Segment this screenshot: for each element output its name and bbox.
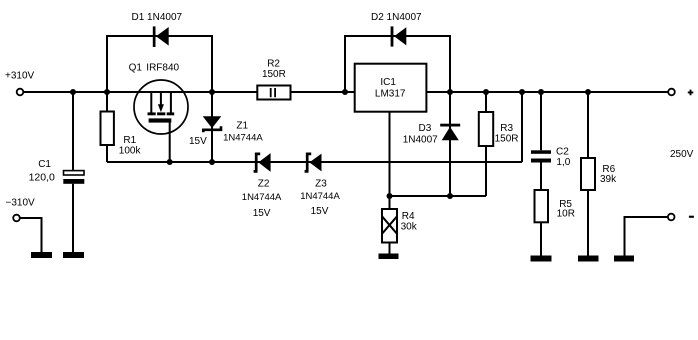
junction dot adj node left — [387, 193, 393, 199]
zener Z1 — [203, 116, 222, 132]
zener Z3 — [305, 154, 322, 172]
junction R6 on rail — [585, 89, 591, 95]
ground below output minus — [614, 256, 634, 262]
svg-text:Z3: Z3 — [315, 179, 327, 190]
svg-text:R2: R2 — [267, 59, 280, 70]
terminal output plus — [668, 89, 675, 96]
junction dot Z1 bottom — [209, 159, 215, 165]
svg-text:LM317: LM317 — [375, 89, 406, 100]
svg-text:10R: 10R — [557, 209, 575, 220]
wire gate lead Q1 — [169, 123, 171, 163]
svg-text:250V: 250V — [670, 149, 694, 160]
svg-text:D3: D3 — [419, 123, 432, 134]
svg-text:1,0: 1,0 — [556, 157, 570, 168]
svg-text:Z1: Z1 — [236, 121, 248, 132]
svg-text:15V: 15V — [253, 208, 271, 219]
resistor R6 — [581, 158, 595, 190]
ground below R4 — [379, 254, 399, 260]
wire R1 branch — [106, 92, 108, 162]
svg-text:Z2: Z2 — [258, 178, 270, 189]
svg-text:+310V: +310V — [5, 71, 35, 82]
junction dot adj node D3 — [447, 193, 453, 199]
resistor R5 — [535, 190, 549, 222]
IC1 box — [355, 64, 427, 112]
diode D2 — [391, 26, 407, 46]
resistor R3 — [479, 112, 493, 146]
terminal output minus — [668, 214, 675, 221]
zener Z2 — [254, 153, 271, 172]
svg-text:1N4007: 1N4007 — [403, 134, 438, 145]
svg-text:1N4744A: 1N4744A — [223, 132, 263, 143]
resistor R1 — [101, 112, 114, 146]
svg-text:IRF840: IRF840 — [146, 63, 179, 74]
svg-text:150R: 150R — [495, 134, 519, 145]
junction zener-string riser on rail — [519, 89, 525, 95]
junction D2 left on rail — [342, 89, 348, 95]
wire D2 loop — [345, 36, 450, 92]
ground below R6 — [578, 256, 599, 262]
junction D2 D3 on rail — [447, 89, 453, 95]
label plus sign — [688, 90, 694, 96]
svg-text:−310V: −310V — [6, 197, 36, 208]
svg-text:C1: C1 — [38, 159, 51, 170]
svg-text:R1: R1 — [123, 135, 136, 146]
resistor R4 with cross — [382, 209, 397, 243]
svg-text:15V: 15V — [189, 136, 207, 147]
ground below C1 — [63, 252, 84, 258]
junction R3 on rail — [483, 89, 489, 95]
svg-text:R4: R4 — [402, 211, 415, 222]
svg-text:1N4744A: 1N4744A — [242, 192, 282, 203]
resistor R2 — [257, 86, 290, 100]
wire line node gate (zener string row) — [107, 161, 522, 163]
wire main rail left section — [23, 91, 354, 93]
svg-text:150R: 150R — [262, 69, 286, 80]
wire C2 R5 branch — [540, 92, 542, 256]
junction R1 D1 on rail — [104, 89, 110, 95]
svg-text:D1 1N4007: D1 1N4007 — [132, 12, 183, 23]
svg-text:120,0: 120,0 — [29, 171, 55, 183]
diode D1 — [153, 26, 169, 47]
svg-text:R3: R3 — [500, 123, 513, 134]
wire output minus to ground — [625, 217, 668, 256]
wire R6 branch — [587, 92, 589, 256]
wire -310V to ground — [20, 218, 42, 253]
svg-text:D2 1N4007: D2 1N4007 — [371, 12, 422, 23]
junction C2 on rail — [538, 89, 544, 95]
junction Z1 D1 on rail — [209, 89, 215, 95]
junction dot gate node — [167, 159, 173, 165]
capacitor C2 — [531, 150, 551, 162]
svg-text:IC1: IC1 — [380, 77, 396, 88]
terminal +310V — [17, 89, 24, 96]
svg-text:100k: 100k — [119, 146, 142, 157]
svg-text:1N4744A: 1N4744A — [300, 191, 340, 202]
transistor Q1 internals — [148, 92, 175, 123]
svg-text:Q1: Q1 — [129, 63, 143, 74]
transistor Q1 circle — [134, 80, 188, 134]
terminal -310V — [13, 215, 20, 222]
wire R3 branch vertical — [485, 92, 487, 196]
wire Z1 branch vertical — [211, 92, 213, 162]
label minus sign — [689, 216, 694, 218]
svg-text:30k: 30k — [401, 222, 418, 233]
wire C1 branch — [72, 92, 74, 253]
wire line node adj — [390, 195, 487, 197]
diode D3 — [440, 124, 460, 141]
wire main rail right section — [426, 91, 668, 93]
wire R4 branch — [389, 196, 391, 254]
svg-text:C2: C2 — [556, 146, 569, 157]
wire D3 branch vertical — [449, 92, 451, 196]
wire IC1 adjust pin — [389, 112, 391, 197]
ground below -310V — [31, 252, 52, 258]
ground below R5 — [531, 256, 552, 262]
junction C1 on rail — [70, 89, 76, 95]
wire riser to output rail — [521, 92, 523, 162]
svg-text:39k: 39k — [600, 174, 617, 185]
svg-text:15V: 15V — [311, 206, 329, 217]
capacitor C1 — [63, 171, 84, 184]
wire D1 loop — [107, 36, 212, 92]
